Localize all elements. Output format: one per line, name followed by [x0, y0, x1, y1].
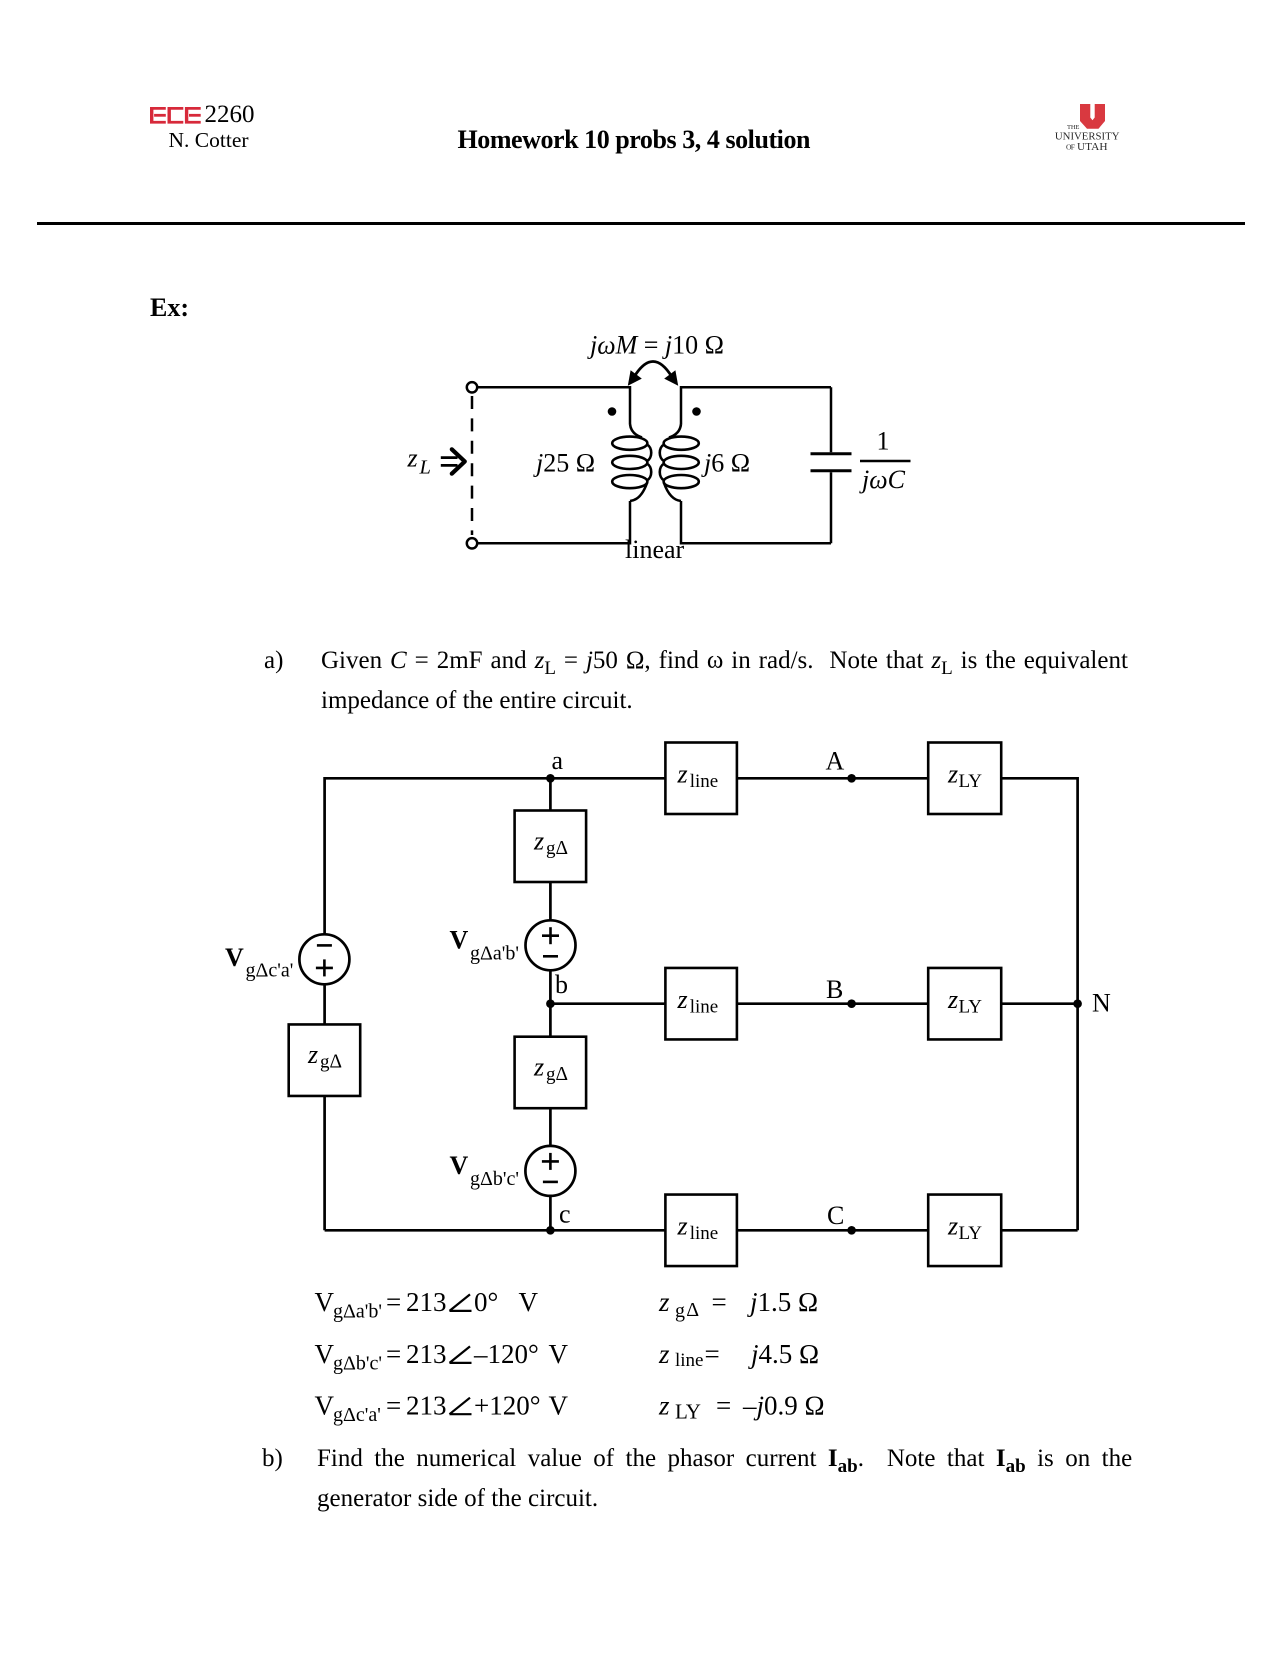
paragraph a) line 1: [321, 648, 1128, 673]
label zgD left: [307, 1040, 342, 1073]
svg-text:Δ: Δ: [556, 1064, 569, 1085]
header: ECE logo: [150, 107, 202, 125]
wire bottom left: [478, 501, 631, 543]
svg-text:C: C: [827, 1201, 844, 1230]
svg-text:g: g: [546, 1064, 556, 1085]
label zLY middle: [947, 985, 982, 1018]
svg-text:+120°: +120°: [474, 1390, 541, 1420]
node A: [847, 774, 856, 783]
svg-text:z: z: [947, 985, 958, 1014]
node c: [546, 1226, 555, 1235]
svg-text:z: z: [677, 985, 688, 1014]
svg-text:V: V: [519, 1287, 539, 1317]
svg-text:gΔc'a': gΔc'a': [246, 959, 294, 981]
svg-text:=: =: [386, 1287, 401, 1317]
wire zLY bottom to right bus: [1001, 1229, 1077, 1232]
svg-text:j4.5 Ω: j4.5 Ω: [748, 1339, 819, 1369]
wire source a'b' to node b: [549, 970, 552, 1036]
angle symbol row1: [450, 1294, 472, 1311]
svg-text:B: B: [826, 975, 843, 1004]
node B: [847, 999, 856, 1008]
svg-text:z: z: [677, 760, 688, 789]
source VgDa'b': [526, 920, 576, 970]
svg-text:gΔa'b': gΔa'b': [470, 943, 519, 965]
label zline middle: [677, 985, 719, 1018]
box zline top: [665, 743, 737, 815]
svg-text:z: z: [947, 760, 958, 789]
paragraph a) marker: [264, 648, 283, 673]
value row3 V source c'a': [315, 1390, 569, 1426]
svg-text:=: =: [386, 1390, 401, 1420]
box zgD branch a: [515, 811, 587, 883]
capacitor C: [830, 387, 833, 452]
box zLY middle: [928, 968, 1001, 1039]
Ex: label: [150, 295, 189, 321]
svg-text:LY: LY: [959, 997, 983, 1018]
wire zline middle to zLY middle via node B: [737, 1002, 928, 1005]
svg-text:line: line: [675, 1350, 704, 1371]
svg-text:V: V: [315, 1287, 335, 1317]
label source VgDa'b': [450, 926, 519, 965]
header: University of Utah logo: [1048, 100, 1128, 156]
wire left bus upper: [323, 777, 326, 934]
terminal top-left: [467, 382, 477, 392]
box zline bottom: [665, 1195, 737, 1267]
svg-text:line: line: [690, 1223, 719, 1244]
label zLY bottom: [947, 1212, 982, 1245]
svg-text:gΔb'c': gΔb'c': [333, 1353, 382, 1375]
svg-text:Δ: Δ: [686, 1299, 699, 1321]
svg-text:V: V: [549, 1390, 569, 1420]
wire zgD box b to source b'c': [549, 1108, 552, 1146]
svg-text:line: line: [690, 997, 719, 1018]
label zgD branch b: [533, 1053, 568, 1086]
box zLY top: [928, 743, 1001, 815]
wire left source to left zgD box: [323, 984, 326, 1024]
value row1 V source a'b': [315, 1287, 539, 1323]
angle symbol row2: [450, 1346, 472, 1363]
wire c row to zline bottom: [325, 1229, 666, 1232]
header rule: [37, 222, 1245, 225]
inductor L2 j6 coil: [660, 424, 699, 501]
value row2 zline: [658, 1339, 819, 1371]
svg-text:z: z: [307, 1040, 318, 1069]
box zgD left: [289, 1024, 361, 1096]
header: course number: [205, 102, 255, 127]
svg-text:jωM = j10 Ω: jωM = j10 Ω: [587, 331, 724, 360]
svg-text:LY: LY: [959, 1223, 983, 1244]
header: author: [169, 130, 249, 152]
svg-text:V: V: [315, 1339, 335, 1369]
svg-text:gΔc'a': gΔc'a': [333, 1404, 381, 1426]
paragraph b) line 2: [317, 1486, 598, 1511]
label source VgDc'a': [225, 943, 293, 981]
fraction bar 1/jwC: [860, 460, 911, 462]
paragraph b) line 1: [317, 1446, 1132, 1471]
value row3 zLY: [658, 1390, 825, 1423]
label zgD branch a: [533, 826, 568, 859]
svg-text:z: z: [947, 1212, 958, 1241]
source VgDb'c': [525, 1146, 575, 1196]
svg-text:g: g: [675, 1300, 685, 1322]
inductor L1 j25 coil: [612, 424, 651, 501]
svg-text:A: A: [826, 747, 845, 776]
svg-text:z: z: [658, 1339, 670, 1369]
label zline bottom: [677, 1212, 719, 1245]
svg-text:Δ: Δ: [330, 1052, 343, 1073]
svg-text:j25 Ω: j25 Ω: [533, 449, 595, 478]
svg-text:linear: linear: [625, 535, 685, 564]
wire top left: [478, 387, 631, 424]
svg-text:N: N: [1092, 989, 1111, 1018]
header: title: [458, 127, 811, 153]
svg-text:gΔb'c': gΔb'c': [470, 1168, 519, 1190]
svg-text:V: V: [315, 1390, 335, 1420]
svg-text:gΔa'b': gΔa'b': [333, 1301, 382, 1323]
svg-text:j1.5 Ω: j1.5 Ω: [747, 1287, 818, 1317]
svg-text:L: L: [419, 457, 431, 479]
svg-text:z: z: [677, 1212, 688, 1241]
node b: [546, 999, 555, 1008]
wire b to zline middle: [550, 1002, 665, 1005]
dashed line zL: [471, 396, 474, 535]
source VgDc'a': [299, 934, 349, 984]
paragraph b) marker: [262, 1446, 283, 1471]
svg-text:213: 213: [406, 1287, 447, 1317]
svg-text:213: 213: [406, 1390, 447, 1420]
terminal bottom-left: [467, 538, 477, 548]
svg-text:z: z: [533, 1053, 544, 1082]
svg-text:0°: 0°: [474, 1287, 498, 1317]
svg-text:V: V: [549, 1339, 569, 1369]
svg-text:c: c: [559, 1200, 571, 1229]
svg-text:z: z: [533, 826, 544, 855]
label zline top: [677, 760, 719, 793]
wire source b'c' to node c: [549, 1196, 552, 1230]
paragraph a) line 2: [321, 688, 633, 713]
svg-text:g: g: [546, 838, 556, 859]
polarity dot L2: [692, 407, 701, 416]
svg-text:LY: LY: [675, 1400, 701, 1424]
label zLY top: [947, 760, 982, 793]
wire zline bottom to zLY bottom via node C: [737, 1229, 928, 1232]
mutual coupling arrow: [634, 362, 672, 378]
svg-text:jωC: jωC: [859, 465, 906, 494]
wire zLY middle to node N: [1001, 1002, 1077, 1005]
wire zline top to zLY top via node A: [737, 777, 928, 780]
node N: [1073, 999, 1082, 1008]
svg-text:=: =: [386, 1339, 401, 1369]
wire bottom right: [681, 501, 831, 543]
svg-text:z: z: [407, 444, 418, 473]
svg-text:213: 213: [406, 1339, 447, 1369]
svg-text:=: =: [712, 1287, 727, 1317]
value row1 zgD: [658, 1287, 818, 1322]
box zLY bottom: [928, 1195, 1001, 1267]
wire top right: [681, 387, 831, 424]
svg-text:–120°: –120°: [473, 1339, 539, 1369]
svg-text:z: z: [658, 1287, 670, 1317]
svg-text:j6 Ω: j6 Ω: [701, 449, 750, 478]
label source VgDb'c': [450, 1151, 519, 1190]
svg-text:LY: LY: [959, 771, 983, 792]
svg-text:a: a: [552, 746, 564, 775]
block U: [1080, 104, 1105, 129]
svg-text:g: g: [320, 1052, 330, 1073]
svg-text:V: V: [225, 943, 244, 972]
svg-text:V: V: [450, 1151, 469, 1180]
svg-text:V: V: [450, 926, 469, 955]
svg-text:b: b: [555, 970, 568, 999]
node a: [546, 774, 555, 783]
svg-text:1: 1: [877, 427, 890, 456]
wire zLY top to right bus: [1001, 777, 1077, 780]
svg-text:=: =: [716, 1390, 731, 1420]
box zline middle: [665, 968, 737, 1039]
wire left zgD box to bottom row: [323, 1096, 326, 1230]
node C: [847, 1226, 856, 1235]
wire right bus to node N: [1076, 777, 1079, 1230]
angle symbol row3: [450, 1398, 472, 1415]
wire a to zline top: [325, 777, 666, 780]
zL arrow symbol: [441, 449, 465, 473]
wire node a to zgD box a: [549, 778, 552, 810]
box zgD branch b: [515, 1037, 587, 1109]
polarity dot L1: [608, 407, 617, 416]
svg-text:z: z: [658, 1390, 670, 1420]
wire zgD box a to source a'b': [549, 882, 552, 920]
value row2 V source b'c': [315, 1339, 569, 1375]
svg-text:Δ: Δ: [556, 838, 569, 859]
svg-text:line: line: [690, 771, 719, 792]
svg-text:=: =: [705, 1339, 720, 1369]
svg-text:–j0.9 Ω: –j0.9 Ω: [742, 1390, 825, 1420]
